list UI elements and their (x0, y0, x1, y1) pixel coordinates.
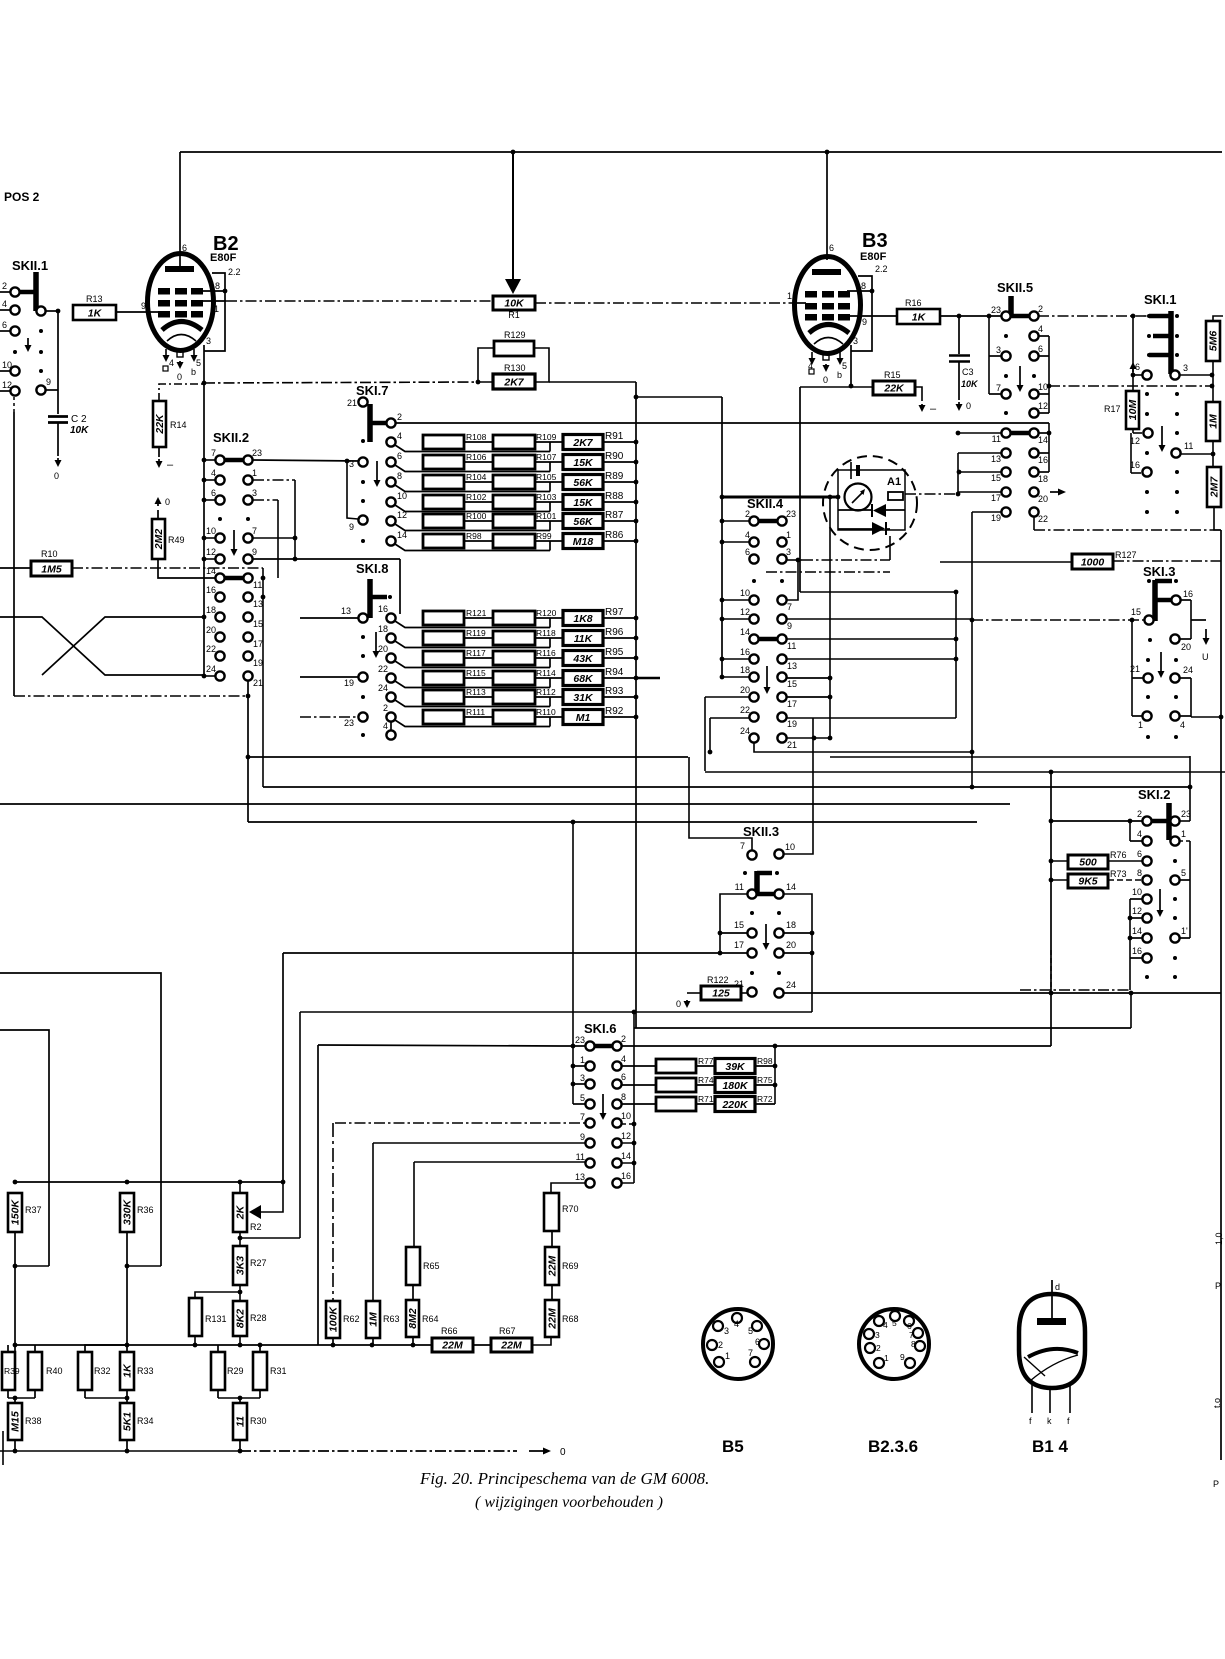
svg-text:R102: R102 (466, 492, 487, 502)
switch SKII.4 row 24 (749, 733, 758, 742)
switch SKII.3 contact 7 (747, 850, 756, 859)
resistor R102 (423, 495, 464, 509)
switch SKII.4 row 12 (749, 614, 758, 623)
resistor R93 (563, 690, 603, 705)
resistor R92 (563, 710, 603, 725)
switch SKI.1 arrow (1161, 426, 1163, 449)
svg-text:R98: R98 (466, 531, 482, 541)
capacitor C2 (48, 415, 68, 418)
svg-text:8: 8 (911, 1339, 916, 1349)
switch SKI.2 arrow (1159, 889, 1161, 914)
wire dash y572 (766, 571, 890, 573)
wire R70-R69 (551, 1231, 553, 1247)
wire R32-R33 bottom join (84, 1390, 86, 1398)
wire SKI.7 wiper long line (396, 422, 1049, 424)
svg-text:SKI.6: SKI.6 (584, 1021, 617, 1036)
resistor R63 (366, 1301, 380, 1338)
svg-text:13: 13 (341, 606, 351, 616)
wire SKII.1 row dot (13, 350, 17, 354)
svg-text:3K3: 3K3 (235, 1256, 247, 1275)
svg-text:R17: R17 (1104, 404, 1121, 414)
svg-text:R92: R92 (605, 706, 624, 717)
switch SKII.3 contact 14 (774, 889, 783, 898)
switch SKI.7 left dot (361, 539, 365, 543)
svg-text:15: 15 (253, 619, 263, 629)
wire R17 to 16 bracket (1130, 433, 1132, 473)
svg-text:SKI.1: SKI.1 (1144, 292, 1177, 307)
svg-text:1K: 1K (88, 308, 103, 320)
svg-text:R115: R115 (466, 668, 486, 678)
wire R28 bottom (239, 1336, 241, 1345)
resistor R110 (493, 710, 535, 724)
wire SKI.6 row R77 (621, 1065, 656, 1067)
switch SKI.8 contact 20 (386, 653, 395, 662)
svg-text:4: 4 (621, 1054, 626, 1064)
switch SKII.1 contact right (36, 306, 45, 315)
switch SKII.5 row 4 (1004, 334, 1008, 338)
svg-text:24: 24 (786, 980, 796, 990)
resistor R109 (493, 435, 535, 449)
wire R34 (126, 1398, 128, 1403)
svg-text:10: 10 (206, 526, 216, 536)
svg-text:R72: R72 (757, 1094, 773, 1104)
resistor R111 (423, 710, 464, 724)
svg-text:–: – (930, 403, 937, 415)
svg-text:12: 12 (206, 547, 216, 557)
svg-text:R86: R86 (605, 530, 624, 541)
svg-text:3: 3 (724, 1326, 729, 1336)
wire SKI.6 10-16 bracket (633, 1028, 635, 1183)
wire SKI.6 9 feed (373, 1142, 585, 1144)
svg-text:24: 24 (740, 726, 750, 736)
svg-text:P: P (1215, 1281, 1221, 1291)
svg-text:24: 24 (206, 664, 216, 674)
svg-text:R31: R31 (270, 1366, 287, 1376)
svg-text:R10: R10 (41, 549, 58, 559)
wire bottom bus (0, 1450, 240, 1452)
svg-text:9: 9 (900, 1352, 905, 1362)
wire SKI.8 23 feed (300, 716, 358, 718)
wire SKII.5 2 to SKI.1 (1038, 315, 1149, 317)
wire R129-R130 right bracket (535, 348, 549, 382)
svg-text:2M7: 2M7 (1209, 476, 1221, 499)
wire SKII.4 3 dash to meter diode (802, 559, 890, 561)
resistor R64 (406, 1300, 419, 1337)
wire SKII.4 7 to 3 (787, 560, 798, 600)
svg-text:R95: R95 (605, 647, 624, 658)
tube B3 pin 9 wire (849, 315, 897, 317)
wire SKI.8 row 20 (395, 661, 550, 668)
resistor R30 (233, 1403, 247, 1440)
svg-text:20: 20 (1038, 494, 1048, 504)
resistor R89 (563, 475, 603, 490)
svg-text:220K: 220K (721, 1099, 749, 1111)
wire riser to R17 (1132, 316, 1134, 391)
svg-text:21: 21 (347, 398, 357, 408)
resistor R113 (423, 690, 464, 704)
wire meter minus rail x830 (829, 497, 831, 738)
switch SKI.8 contact 16 (386, 613, 395, 622)
svg-text:10K: 10K (70, 425, 89, 436)
resistor R2 potentiometer (233, 1193, 247, 1232)
resistor R39 (2, 1352, 15, 1390)
svg-text:3: 3 (996, 345, 1001, 355)
svg-text:R106: R106 (466, 452, 487, 462)
switch SKI.7 left dot (361, 480, 365, 484)
wire bus y1182 (15, 1181, 283, 1183)
svg-text:R36: R36 (137, 1205, 154, 1215)
meter A1 series resistor (888, 492, 903, 500)
resistor R66 (432, 1338, 473, 1352)
svg-text:R71: R71 (698, 1094, 714, 1104)
wire SKII.4 11 long (787, 638, 956, 640)
svg-text:2: 2 (745, 509, 750, 519)
svg-text:R129: R129 (504, 330, 526, 340)
svg-text:2: 2 (397, 412, 402, 422)
wire SKII.3 bottom rail (300, 1011, 812, 1013)
switch SKI.8 left dot (361, 733, 365, 737)
switch SKII.5 row 12 (1004, 411, 1008, 415)
switch SKII.2 arrow (233, 530, 235, 553)
svg-text:0: 0 (560, 1447, 566, 1458)
tube B2 cathode (162, 322, 202, 331)
svg-text:10K: 10K (961, 379, 979, 389)
switch SKI.6 row 23 (594, 1044, 613, 1049)
svg-text:R111: R111 (466, 707, 485, 717)
resistor R36 (120, 1193, 134, 1232)
svg-text:1: 1 (214, 304, 219, 314)
wire SKII.4 21 to rail (787, 737, 830, 739)
wire SKI.7 row 6 (395, 465, 550, 472)
wire SKII.4 19 long (787, 717, 956, 719)
svg-text:10K: 10K (504, 298, 525, 310)
wire SKI.2 23 right (1179, 820, 1190, 822)
switch SKII.3 contact 21 (747, 987, 756, 996)
resistor R34 (120, 1403, 134, 1440)
svg-text:R1: R1 (508, 310, 520, 320)
svg-text:16: 16 (740, 647, 750, 657)
svg-text:1,0: 1,0 (1214, 1232, 1224, 1245)
svg-text:23: 23 (991, 305, 1001, 315)
svg-text:( wijzigingen voorbehouden ): ( wijzigingen voorbehouden ) (475, 1494, 663, 1511)
wire SKII.3 17 feed (283, 952, 748, 954)
svg-text:11: 11 (787, 641, 796, 651)
svg-text:12: 12 (397, 510, 407, 520)
switch SKII.3 contact 18 (774, 928, 783, 937)
wire bottom bus arrow 0 (529, 1450, 548, 1452)
svg-text:22: 22 (740, 705, 750, 715)
switch SKII.5 wiper (1008, 296, 1014, 317)
resistor R108 (423, 435, 464, 449)
tube B1 anode (1037, 1318, 1066, 1325)
svg-text:14: 14 (397, 530, 407, 540)
switch SKI.8 wiper (367, 579, 373, 618)
svg-text:R94: R94 (605, 667, 624, 678)
svg-text:6: 6 (211, 488, 216, 498)
wire R14 bottom (158, 447, 160, 457)
svg-text:6: 6 (755, 1337, 760, 1347)
wire top supply bus (180, 151, 1222, 153)
svg-text:Fig. 20. Principeschema van d: Fig. 20. Principeschema van de GM 6008. (419, 1469, 709, 1488)
svg-text:14: 14 (740, 627, 750, 637)
switch SKI.1 wiper bars (1168, 311, 1174, 374)
resistor R17 (1126, 391, 1139, 429)
wire R76 (1051, 860, 1068, 862)
svg-text:15K: 15K (573, 497, 594, 509)
svg-text:R39: R39 (4, 1366, 20, 1376)
svg-text:8K2: 8K2 (235, 1309, 247, 1328)
svg-text:56K: 56K (573, 516, 594, 528)
wire y696 dashdot (14, 695, 248, 697)
switch SKII.4 row 10 (749, 595, 758, 604)
switch SKI.2 row 4 (1142, 836, 1151, 845)
resistor R68 (545, 1300, 559, 1337)
resistor R10 (31, 561, 72, 576)
resistor R71 (656, 1097, 696, 1111)
svg-text:R100: R100 (466, 511, 487, 521)
svg-text:10: 10 (397, 491, 407, 501)
svg-text:M18: M18 (573, 536, 594, 548)
switch SKII.4 row 22 (749, 712, 758, 721)
svg-text:R40: R40 (46, 1366, 63, 1376)
svg-text:9K5: 9K5 (1078, 876, 1097, 888)
switch SKI.6 row 1 (585, 1061, 594, 1070)
svg-text:11: 11 (235, 1416, 247, 1427)
wire SKII.2 left rail (203, 383, 205, 676)
svg-text:22M: 22M (547, 1256, 559, 1278)
switch SKI.8 contact 13 (358, 613, 367, 622)
resistor R90 (563, 455, 603, 470)
wire to R37 bottom (15, 1265, 49, 1267)
wire SKI.7 row 10 (395, 505, 550, 512)
svg-text:13: 13 (787, 661, 797, 671)
resistor R88 (563, 495, 603, 510)
svg-text:R37: R37 (25, 1205, 42, 1215)
resistor R130 (493, 374, 535, 389)
svg-text:17: 17 (734, 940, 744, 950)
switch SKII.1 arrow (27, 338, 29, 349)
svg-text:23: 23 (786, 509, 796, 519)
svg-text:R117: R117 (466, 648, 486, 658)
svg-text:20: 20 (206, 625, 216, 635)
svg-text:1: 1 (884, 1353, 889, 1363)
svg-text:1M: 1M (1208, 414, 1220, 429)
svg-text:2M2: 2M2 (153, 529, 165, 551)
svg-text:3: 3 (786, 547, 791, 557)
svg-text:SKII.3: SKII.3 (743, 824, 779, 839)
resistor R70 (544, 1193, 559, 1231)
wire SKI.7 row 12 (395, 524, 550, 531)
switch SKI.3 contact 16 (1171, 595, 1180, 604)
svg-text:R88: R88 (605, 491, 624, 502)
svg-text:SKII.2: SKII.2 (213, 430, 249, 445)
wire riser x283 (282, 953, 284, 1182)
svg-text:SKI.3: SKI.3 (1143, 564, 1176, 579)
resistor R13 (73, 305, 116, 320)
meter A1 movement (845, 484, 872, 511)
wire R27 to R28 (239, 1285, 241, 1301)
wire SKII.4 20 riser (705, 696, 749, 698)
switch SKI.8 arrow (375, 632, 377, 655)
resistor R112 (493, 690, 535, 704)
switch SKI.2 row dots (1145, 975, 1149, 979)
wire SKII.4 24 down to y752 (754, 743, 972, 752)
svg-text:6: 6 (829, 243, 834, 253)
svg-text:22M: 22M (547, 1308, 559, 1330)
svg-text:SKI.8: SKI.8 (356, 561, 389, 576)
wire R32 top bracket (85, 1345, 127, 1352)
resistor R96 (563, 631, 603, 646)
switch SKI.1 contact 11 (1171, 448, 1180, 457)
tube B3 cathode (809, 325, 849, 334)
svg-text:R90: R90 (605, 451, 624, 462)
svg-text:31K: 31K (573, 692, 594, 704)
wire R29 R31 tops (217, 1345, 219, 1352)
svg-text:12: 12 (621, 1131, 631, 1141)
svg-text:R38: R38 (25, 1416, 42, 1426)
svg-text:21: 21 (253, 678, 263, 688)
switch SKII.2 row 24 (215, 671, 224, 680)
switch SKII.5 row 13 (1001, 448, 1010, 457)
svg-text:R64: R64 (422, 1314, 439, 1324)
wire SKI.6 13 feed (551, 1183, 585, 1193)
svg-text:3: 3 (349, 459, 354, 469)
resistor R87 (563, 514, 603, 529)
wire R15 left (800, 386, 873, 388)
svg-text:6: 6 (621, 1072, 626, 1082)
svg-text:125: 125 (712, 988, 730, 1000)
switch SKI.8 contact 18 (386, 633, 395, 642)
wire y530 dashdot to right edge (1034, 529, 1221, 531)
svg-text:R77: R77 (698, 1056, 714, 1066)
svg-text:R130: R130 (504, 363, 526, 373)
wire R131 bottom (194, 1336, 196, 1345)
resistor R40 (28, 1352, 42, 1390)
wire SKII.3 10 up (783, 718, 813, 854)
svg-text:12: 12 (1038, 401, 1048, 411)
svg-text:1': 1' (1181, 926, 1188, 936)
svg-text:10: 10 (1038, 382, 1048, 392)
svg-text:4: 4 (211, 468, 216, 478)
svg-text:7: 7 (787, 602, 792, 612)
svg-text:1K: 1K (122, 1363, 134, 1378)
switch SKII.2 row 14 (224, 576, 244, 581)
svg-text:24: 24 (1183, 665, 1193, 675)
resistor R73 (1068, 874, 1108, 888)
wire SKII.1 row 10 (0, 370, 11, 372)
wire left loop y973 (0, 973, 161, 1266)
wire SKII.1 row 4 (0, 309, 11, 311)
switch SKI.8 contact 22 (386, 673, 395, 682)
switch SKII.3 contact 10 (774, 849, 783, 858)
svg-text:2: 2 (1038, 304, 1043, 314)
svg-text:R108: R108 (466, 432, 487, 442)
wire SKI.1 3 to 5M6 (1180, 374, 1212, 376)
resistor R65 (406, 1247, 420, 1285)
tube B2 grid (158, 288, 170, 295)
svg-text:10: 10 (740, 588, 750, 598)
switch SKI.7 contact 21 (358, 397, 367, 406)
svg-text:R127: R127 (1115, 550, 1137, 560)
resistor R67 (491, 1338, 532, 1352)
svg-text:20: 20 (740, 685, 750, 695)
svg-text:B2.3.6: B2.3.6 (868, 1437, 918, 1456)
svg-text:2K7: 2K7 (503, 377, 524, 389)
meter A1 dashed circle (823, 456, 917, 550)
svg-text:14: 14 (1132, 926, 1142, 936)
wire SKI.3 left bracket (1131, 620, 1133, 716)
switch SKI.1 contact 6 (1142, 370, 1151, 379)
resistor R98 (423, 534, 464, 548)
switch SKI.7 left dot (361, 439, 365, 443)
svg-text:5M6: 5M6 (1208, 331, 1220, 352)
wire B2 anode riser (179, 152, 181, 268)
wire R2-R27 tap right (240, 1237, 300, 1239)
resistor R69 (545, 1247, 559, 1285)
wire SKII.3 24 long bus (784, 992, 1221, 994)
wire SKII.4 17 stub (787, 696, 830, 698)
wire SKI.7 ladder rail (635, 382, 637, 1028)
wire SKI.2 bottom dash (1020, 989, 1130, 991)
svg-text:6: 6 (1135, 362, 1140, 372)
svg-text:1M5: 1M5 (41, 564, 62, 576)
switch SKII.4 row 4 (749, 537, 758, 546)
wire bus y804 (0, 803, 1010, 805)
wire R10 right dashdot (72, 567, 263, 569)
svg-text:19: 19 (991, 513, 1001, 523)
switch SKI.1 dots (1145, 392, 1149, 396)
svg-text:SKI.2: SKI.2 (1138, 787, 1171, 802)
svg-text:1: 1 (252, 468, 257, 478)
svg-text:R2: R2 (250, 1222, 262, 1232)
switch SKI.7 contact 8 (386, 477, 395, 486)
switch SKII.5 row dots (1004, 374, 1008, 378)
svg-text:43K: 43K (572, 653, 594, 665)
svg-text:8: 8 (397, 471, 402, 481)
svg-text:0: 0 (823, 375, 828, 385)
svg-text:22: 22 (1038, 514, 1048, 524)
wire y772 long (705, 771, 1225, 773)
wire R38 (14, 1398, 16, 1403)
resistor R33 (120, 1352, 134, 1390)
wire SKII.1 12 drop (13, 397, 15, 412)
svg-text:R87: R87 (605, 510, 624, 521)
switch SKII.3 arrow (765, 924, 767, 947)
wire R127 right dashdot (1113, 560, 1221, 562)
svg-text:23: 23 (575, 1035, 585, 1045)
svg-text:11: 11 (1184, 441, 1193, 451)
svg-text:8: 8 (215, 281, 220, 291)
svg-text:1: 1 (787, 291, 792, 301)
svg-text:R122: R122 (707, 975, 729, 985)
switch SKII.5 20 arrow out (1050, 491, 1063, 493)
wire SKI.7 row 4 (395, 445, 550, 452)
svg-text:B5: B5 (722, 1437, 744, 1456)
resistor R28 (233, 1301, 247, 1336)
switch SKII.1 wiper (33, 272, 39, 311)
svg-text:18: 18 (740, 665, 750, 675)
wire R73 (1051, 879, 1068, 881)
resistor R74 (656, 1078, 696, 1092)
switch SKI.6 row 7 (585, 1118, 594, 1127)
wire R122 right (741, 992, 747, 994)
tube B2 pin 4 (165, 349, 167, 355)
svg-text:R89: R89 (605, 471, 624, 482)
wire SKI.1 6 stub (1133, 374, 1142, 376)
tube B3 pin 4 (811, 352, 813, 358)
wire riser x300 to R27 tap (299, 1012, 301, 1238)
svg-text:R120: R120 (536, 608, 557, 618)
